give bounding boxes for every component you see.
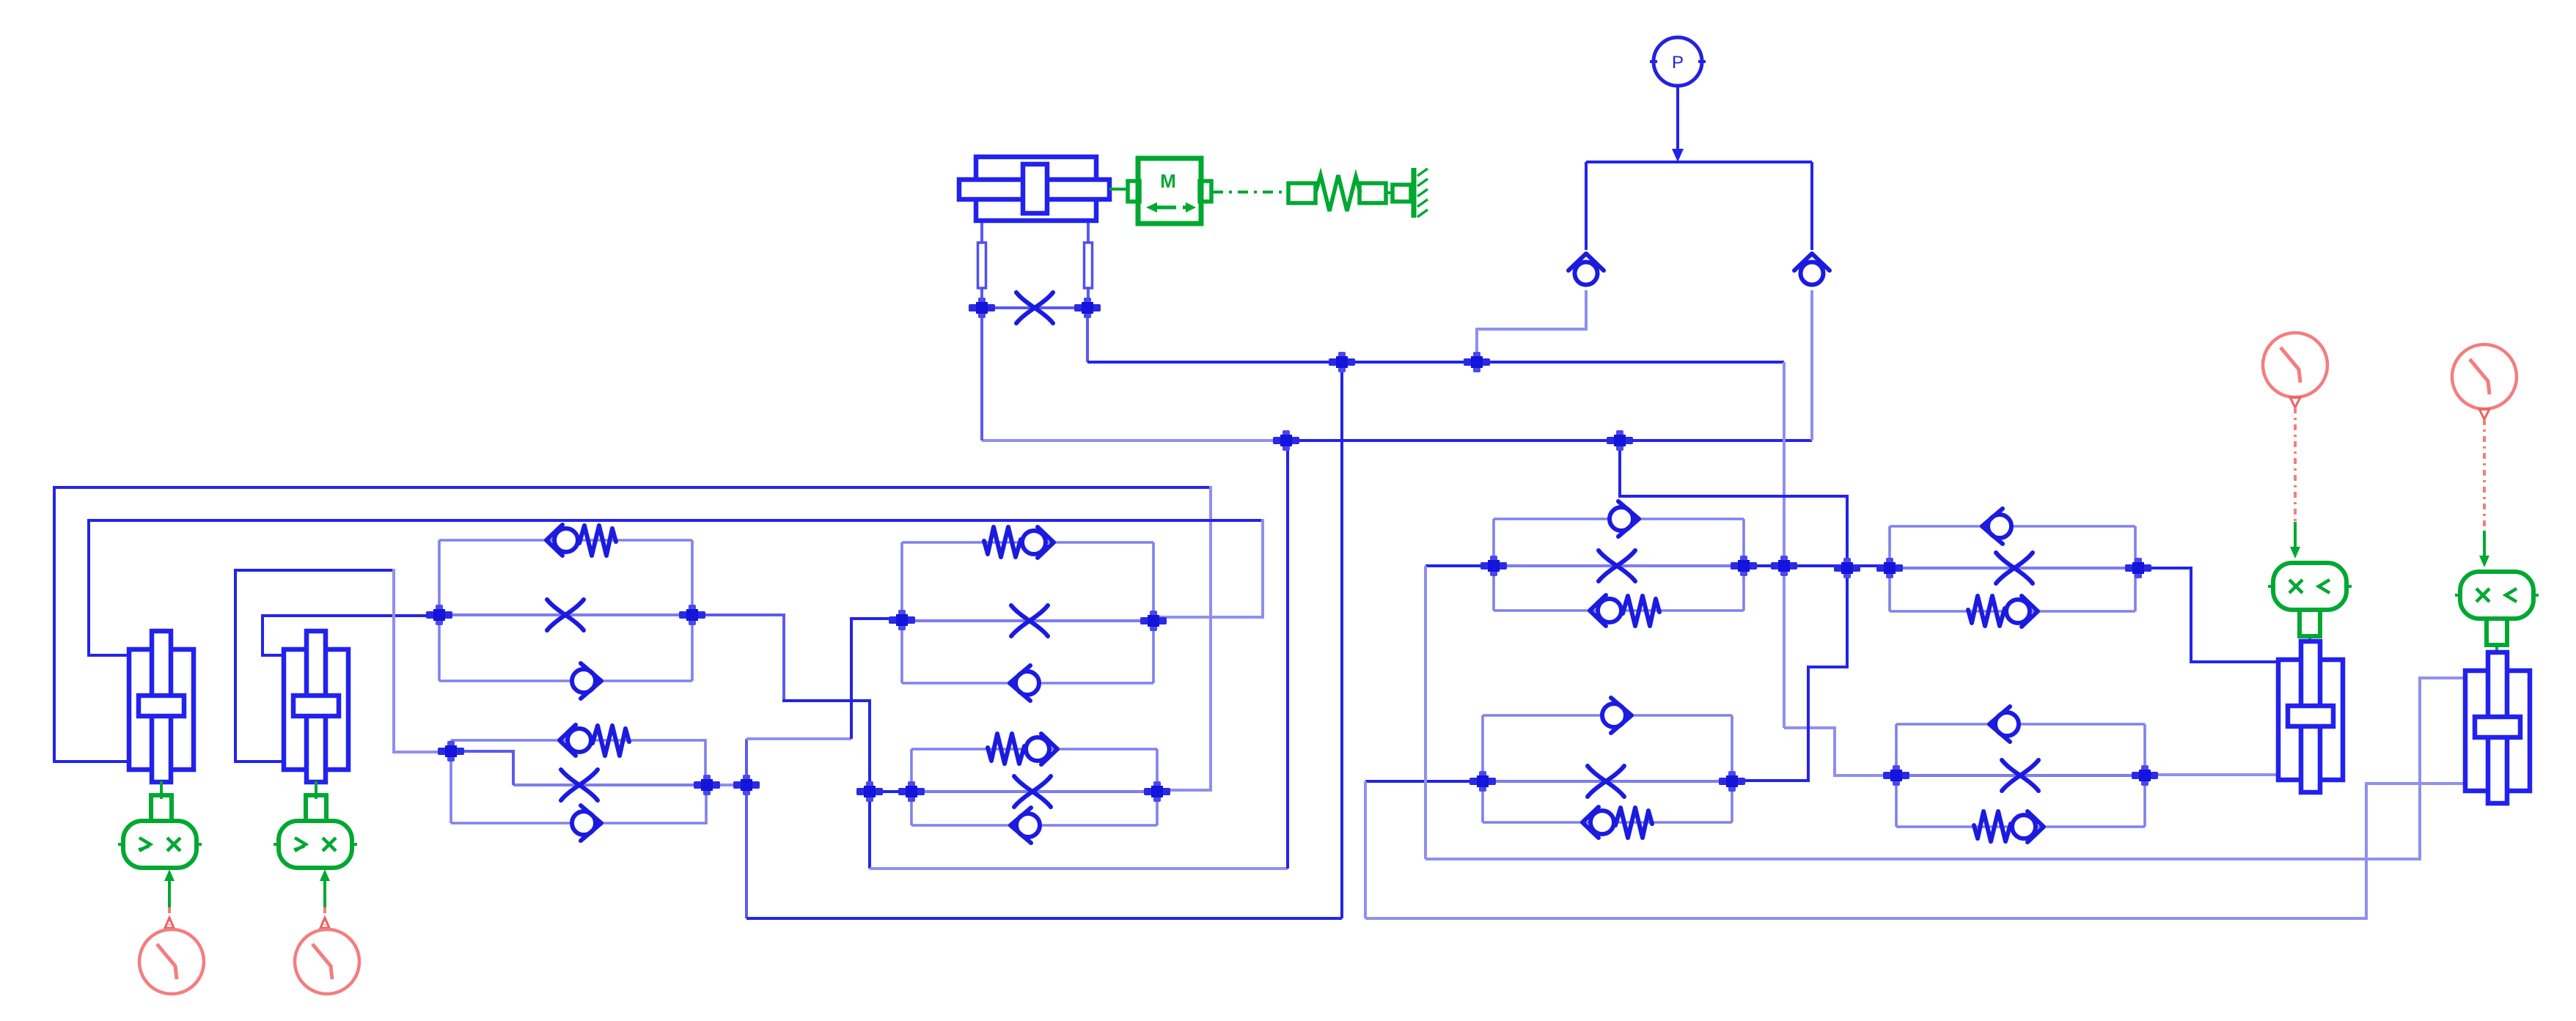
check valve L3 bottom [1010, 666, 1039, 701]
wire R2 mid overlay [1483, 780, 1732, 783]
pipe under cylinder left [978, 243, 986, 288]
check valve R1 top [1610, 501, 1639, 537]
wire y1172 to cyl4 top [1425, 678, 2466, 859]
check valve R4 top [1989, 707, 2019, 742]
wire R2 left feed [1365, 780, 1483, 783]
node A2 left [438, 741, 464, 762]
wire cyl1 bottom port to L4 right (outer left loop) [54, 487, 1211, 762]
relief valve L4 top [988, 734, 1057, 764]
wire L3 mid overlay [902, 619, 1153, 622]
valve block R2 frame [1483, 715, 1732, 822]
node A2 right [694, 775, 720, 795]
node R1 right [1731, 556, 1757, 576]
hydraulic cylinder C4 [2465, 652, 2530, 803]
wire y1253 right segment to cyl4 bottom [1365, 784, 2466, 918]
wire R4 mid overlay [1896, 774, 2145, 777]
wire jog to R4 left junction [1784, 728, 1896, 775]
gauge C3 [2263, 333, 2327, 397]
wire rail R1 to R3 [1744, 564, 1890, 567]
node L3 right [1140, 611, 1167, 631]
check valve R3 top [1982, 509, 2011, 544]
node top throttle left [969, 298, 995, 318]
wire y1253 left segment to x1830 [746, 917, 1342, 920]
wire R4 right to cyl3 bottom [2145, 773, 2279, 776]
check valve L4 bottom [1010, 808, 1040, 843]
node rail x2519 [1834, 558, 1860, 578]
check valve A2 bottom [572, 806, 601, 841]
gauge C1 [139, 929, 204, 994]
transducer C4 (green) [2487, 619, 2507, 658]
throttle R3 mid [1996, 553, 2033, 583]
relief valve R1 bottom [1590, 595, 1659, 626]
valve block L4 frame [911, 749, 1157, 825]
throttle L4 mid [1014, 776, 1051, 807]
converter C2 oval [274, 821, 357, 868]
pressure source P [1650, 37, 1706, 162]
wire y956 to x1186 [782, 701, 870, 792]
node x1186 L4 feed [856, 781, 883, 802]
signal arrow C2 (green up) [320, 869, 330, 907]
converter C3 oval [2268, 563, 2352, 610]
valve block R1 frame [1494, 519, 1744, 611]
pipe under cylinder right [1085, 243, 1093, 288]
wire cyl1 top port line y710 [89, 520, 1263, 655]
hydraulic cylinder C3 [2278, 641, 2343, 792]
wire branch to L4 left junction [870, 790, 911, 793]
wire R1 mid overlay [1494, 564, 1744, 567]
node A1 left [426, 605, 452, 625]
spring damper to wall [1288, 175, 1411, 211]
throttle R2 mid [1588, 766, 1624, 797]
throttle L3 mid [1011, 605, 1048, 636]
relief valve A2 top [559, 725, 629, 756]
wire x1944 down to y1172 [1424, 566, 1427, 859]
wire x1018 vertical [745, 739, 748, 918]
signal arrow C1 (green up) [164, 869, 175, 907]
wire top throttle line [982, 306, 1087, 309]
wire x2433 down [1783, 362, 1786, 728]
wire y1185 to x1756 [870, 867, 1288, 870]
transducer C3 (green) [2300, 610, 2320, 651]
valve block A1 frame [439, 540, 692, 681]
check valve R2 top [1602, 698, 1632, 733]
wire y605 branch down to R2 right chain [1620, 441, 1847, 781]
node R3 right [2125, 558, 2151, 578]
wire A2 right to x1018 [707, 784, 746, 786]
wire x1161 up to L3 left [851, 619, 902, 739]
converter C4 oval [2455, 572, 2539, 619]
wire x537 down to A2 left junction [394, 569, 451, 752]
wire check valve R top leg [1810, 162, 1813, 250]
valve block A2 frame [451, 740, 707, 823]
throttle valve top [1016, 292, 1053, 323]
node A1 right [679, 605, 705, 625]
wire x1862 down to y1253 [1364, 781, 1367, 918]
valve block R3 frame [1890, 526, 2135, 611]
transducer C1 (green) [151, 781, 172, 823]
throttle A2 mid [561, 770, 598, 800]
node R3 left [1876, 558, 1903, 578]
relief valve R3 bottom [1968, 596, 2038, 627]
node y494 x2014 [1464, 352, 1490, 372]
svg-text:M: M [1160, 170, 1176, 192]
wall anchor [1414, 168, 1428, 218]
node L4 left [898, 781, 925, 802]
node R1 left [1480, 556, 1507, 576]
wire x1830 up to y494 junction [1340, 362, 1343, 918]
mass block M [1109, 158, 1211, 224]
signal dash C2 (red) [320, 907, 329, 928]
wire check valve L top leg [1585, 162, 1588, 250]
throttle R1 mid [1599, 550, 1635, 581]
wire L4 mid overlay [911, 790, 1157, 793]
node top throttle right [1074, 298, 1101, 318]
wire check valve L link to y494 [1477, 290, 1586, 362]
wire A1 right jog to x1186 [692, 615, 784, 701]
wire R1 left feed [1425, 564, 1494, 567]
check valve A1 bottom [572, 663, 601, 699]
signal link mass to spring (dash-dot) [1213, 191, 1288, 193]
node R4 right [2132, 765, 2158, 786]
wire R3 mid overlay [1890, 567, 2135, 570]
wire top cylinder right pipe legs [1087, 221, 1090, 308]
wire vertical x1651 down to L4 right junction [1157, 486, 1211, 790]
hydraulic cylinder C2 [284, 631, 348, 782]
check valve vertical right [1794, 254, 1830, 285]
wire top cylinder left pipe legs [980, 221, 983, 308]
signal arrow C3 (green down) [2290, 522, 2300, 559]
wire P source down [1676, 86, 1679, 155]
relief valve R2 bottom [1582, 807, 1652, 838]
relief valve R4 bottom [1974, 811, 2044, 842]
wire y601 dark right part [1286, 439, 1812, 442]
node R2 right [1719, 771, 1745, 792]
wire vertical x1722 down to L3 right junction [1153, 519, 1263, 617]
wire x1339 pipe leg down [980, 308, 983, 441]
gauge C4 [2452, 344, 2517, 409]
wire cyl2 top port to A1 left junction [263, 616, 439, 655]
wire cyl2 bottom port riser [235, 570, 394, 762]
svg-text:P: P [1672, 53, 1684, 73]
node R4 left [1883, 765, 1909, 786]
wire x1186 down to y1185 [868, 792, 871, 869]
wire y221 supply [1586, 161, 1812, 163]
relief valve L3 top [984, 527, 1054, 558]
wire check valve R drop [1810, 290, 1813, 441]
node L4 right [1144, 781, 1170, 802]
wire y1008 to x1161 [746, 737, 851, 740]
valve block R4 frame [1896, 724, 2145, 827]
signal dash C3 (red) [2290, 397, 2300, 532]
node R2 left [1469, 771, 1496, 792]
transducer C2 (green) [306, 781, 326, 823]
wire A2 mid overlay [513, 784, 707, 786]
signal arrow C4 (green down) [2479, 531, 2489, 567]
signal dash C1 (red) [165, 907, 174, 928]
relief valve A1 top [546, 525, 616, 556]
hydraulic cylinder C1 [129, 631, 194, 782]
valve block L3 frame [902, 542, 1153, 683]
gauge C2 [295, 929, 359, 994]
wire A1 mid overlay [439, 613, 692, 616]
converter C1 oval [118, 821, 202, 868]
wire y601 light left part [982, 439, 1286, 442]
hydraulic cylinder (top, double rod) [959, 157, 1109, 221]
throttle A1 mid [547, 600, 584, 630]
check valve vertical left [1568, 254, 1604, 285]
wire R3 right to cyl3 top [2135, 568, 2279, 662]
node rail x2433 [1771, 556, 1797, 576]
node A2 out [733, 775, 760, 795]
node y601 x1754 [1273, 430, 1299, 451]
wire x1483 pipe leg down [1086, 308, 1089, 362]
throttle R4 mid [2002, 760, 2039, 791]
node y494 x1830 [1329, 352, 1355, 372]
node L3 left [889, 610, 915, 630]
wire y494 main run [1087, 361, 1784, 364]
signal dash C4 (red) [2479, 409, 2489, 541]
node y601 x2209 [1607, 430, 1633, 451]
wire x1756 up to junction on y601 [1286, 441, 1289, 869]
